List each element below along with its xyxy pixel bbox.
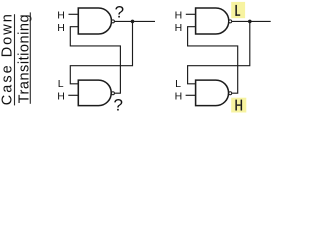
nand gate G2 (left latch bottom) <box>78 80 111 106</box>
label L (right latch top output, highlighted) <box>235 5 240 16</box>
svg-text:H: H <box>175 22 183 34</box>
svg-text:H: H <box>175 9 183 21</box>
junction dot node N1 <box>131 20 135 24</box>
wire: right latch top output Q <box>232 20 271 22</box>
wire: left latch R input stub <box>68 94 78 96</box>
bubble of G3 <box>229 20 232 23</box>
nand gate G3 (right latch top) <box>196 8 229 34</box>
underline of "Transitioning" <box>29 12 31 103</box>
junction dot node N2 <box>248 20 252 24</box>
svg-text:H: H <box>57 9 65 21</box>
bubble of G4 <box>229 92 232 95</box>
nand gate G1 (left latch top) <box>78 8 111 34</box>
wire A2: right latch top output feedback to bottom gate input <box>188 21 250 83</box>
svg-text:L: L <box>58 78 64 90</box>
svg-text:?: ? <box>115 2 124 21</box>
svg-text:Case Down: Case Down <box>0 14 16 105</box>
svg-text:H: H <box>57 91 65 103</box>
underline of "Case Down" <box>14 14 16 105</box>
svg-text:H: H <box>57 22 65 34</box>
wire: left latch top output Q <box>114 20 155 22</box>
bubble of G1 <box>111 20 114 23</box>
nand gate G4 (right latch bottom) <box>196 80 229 106</box>
wire: right latch S input stub <box>186 13 196 15</box>
svg-text:H: H <box>175 91 183 103</box>
wire B: left latch bottom output feedback to top gate input <box>70 27 120 94</box>
wire A: left latch top output feedback to bottom gate input <box>70 21 132 83</box>
highlight box for output L <box>231 2 245 18</box>
wire: right latch R input stub <box>186 94 196 96</box>
wire: left latch S input stub <box>69 13 79 15</box>
svg-text:L: L <box>175 78 181 90</box>
wire B2: right latch bottom output feedback to top gate input <box>188 27 238 94</box>
bubble of G2 <box>111 92 114 95</box>
svg-text:?: ? <box>114 95 123 114</box>
highlight box for output H <box>231 98 246 113</box>
label H (right latch bottom output, highlighted) <box>235 100 242 111</box>
